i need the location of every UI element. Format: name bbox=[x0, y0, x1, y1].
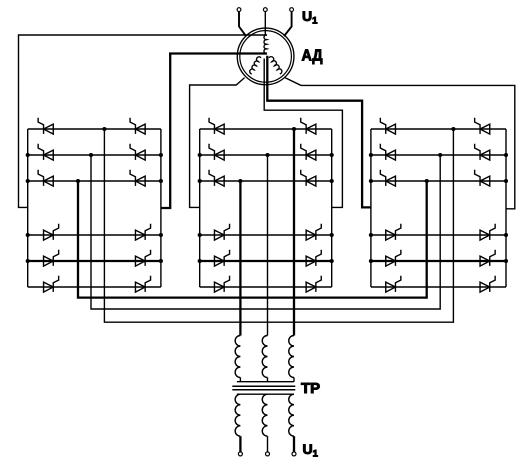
svg-text:АД: АД bbox=[302, 48, 323, 65]
svg-text:ТР: ТР bbox=[301, 380, 320, 397]
